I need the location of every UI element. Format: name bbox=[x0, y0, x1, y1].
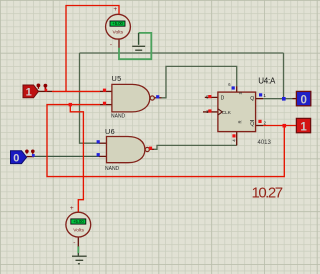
svg-text:+5.00: +5.00 bbox=[73, 219, 84, 224]
svg-text:S: S bbox=[238, 92, 243, 95]
svg-text:2: 2 bbox=[264, 120, 267, 125]
svg-text:0: 0 bbox=[13, 152, 19, 164]
svg-text:Q: Q bbox=[250, 121, 254, 127]
svg-text:+5.00: +5.00 bbox=[112, 21, 123, 26]
svg-text:+: + bbox=[70, 205, 74, 212]
svg-text:Q: Q bbox=[250, 96, 254, 102]
svg-text:NAND: NAND bbox=[105, 166, 120, 172]
svg-text:-: - bbox=[73, 240, 75, 247]
svg-text:U6: U6 bbox=[105, 127, 115, 136]
svg-text:1: 1 bbox=[263, 93, 266, 98]
svg-text:10.27: 10.27 bbox=[252, 185, 283, 202]
svg-text:Volts: Volts bbox=[73, 228, 84, 234]
svg-text:NAND: NAND bbox=[111, 113, 126, 119]
svg-text:1: 1 bbox=[26, 87, 32, 99]
svg-text:1: 1 bbox=[300, 121, 307, 133]
svg-text:U5: U5 bbox=[112, 74, 122, 83]
svg-text:4013: 4013 bbox=[258, 140, 272, 146]
svg-text:U4:A: U4:A bbox=[258, 77, 276, 86]
svg-text:D: D bbox=[221, 96, 225, 102]
svg-text:CLK: CLK bbox=[222, 110, 232, 115]
svg-text:R: R bbox=[238, 120, 243, 123]
svg-text:+: + bbox=[113, 6, 117, 13]
svg-text:Volts: Volts bbox=[112, 30, 123, 36]
svg-text:0: 0 bbox=[300, 94, 306, 106]
svg-text:-: - bbox=[110, 41, 112, 48]
